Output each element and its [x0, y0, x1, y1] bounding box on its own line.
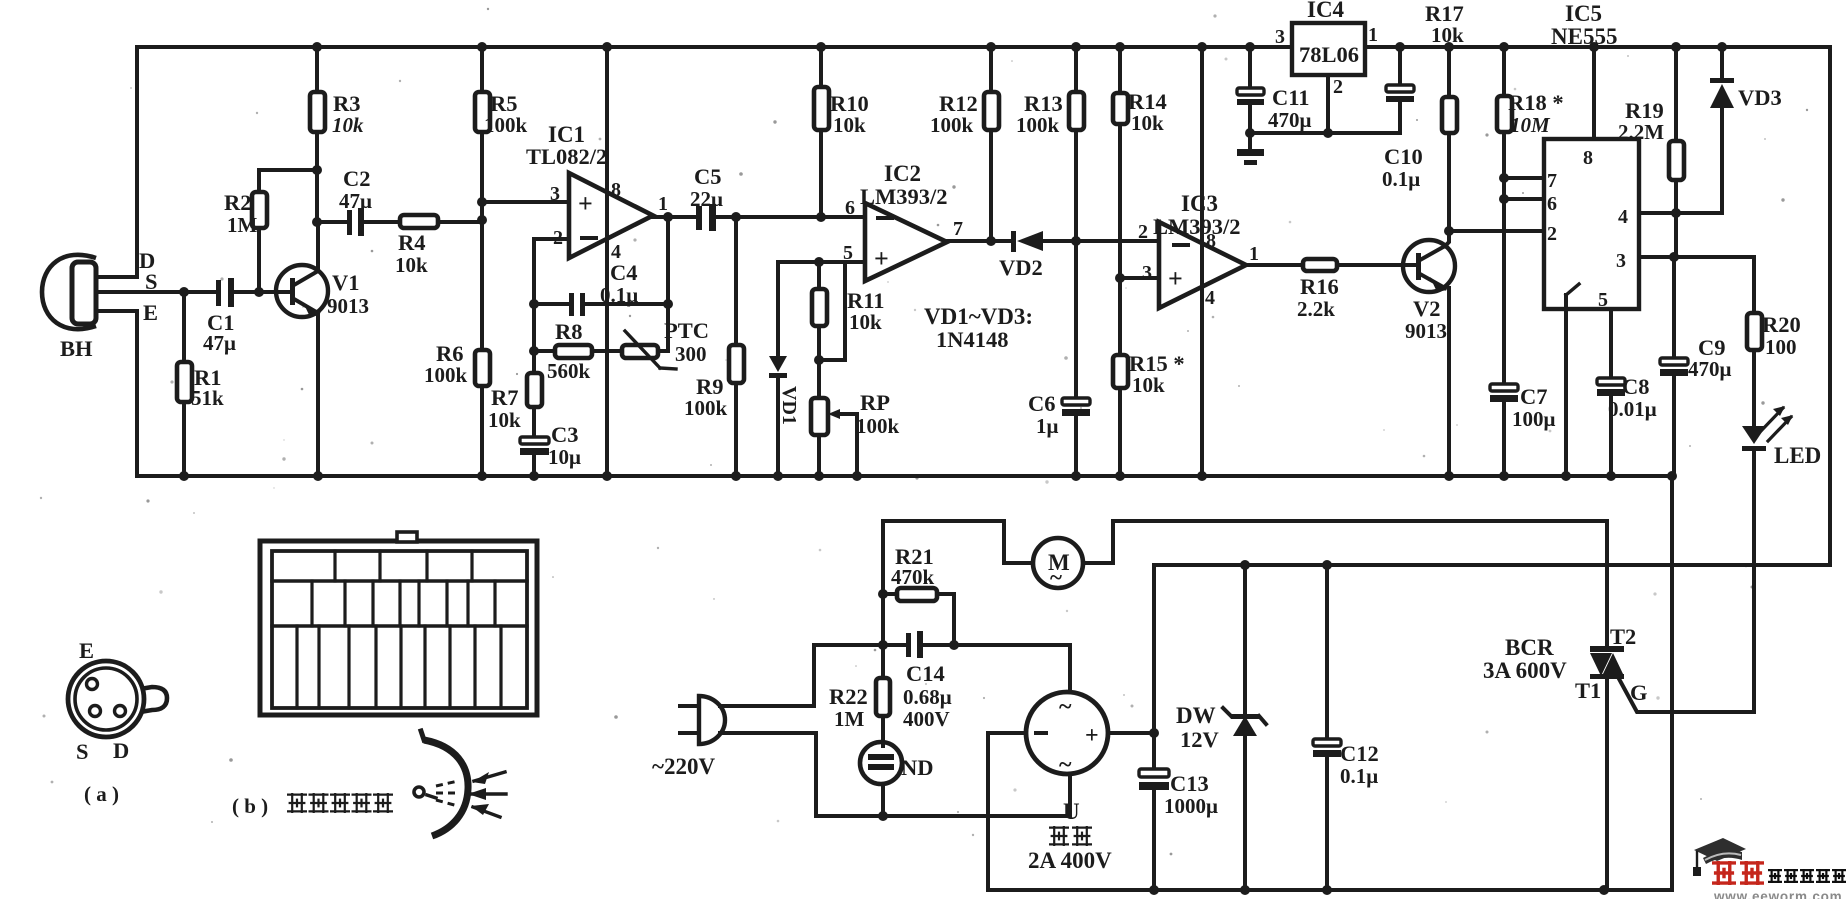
svg-text:R16: R16 — [1300, 274, 1339, 299]
wire V2 emitter diagonal — [1420, 274, 1445, 288]
resistor R8 — [555, 345, 592, 358]
svg-text:BH: BH — [60, 336, 93, 361]
diode VD3 triangle — [1710, 84, 1734, 108]
wire pin3 drop to R20 — [1752, 257, 1756, 313]
svg-text:400V: 400V — [903, 707, 950, 731]
node pin4/R19 — [1671, 208, 1681, 218]
svg-text:VD2: VD2 — [999, 255, 1043, 280]
transistor V1 circle — [276, 265, 328, 317]
svg-text:560k: 560k — [547, 359, 591, 383]
wire R2 top to collector node — [259, 170, 317, 192]
node C9/ground corner — [1667, 471, 1677, 481]
sensor bottom-view tab — [140, 687, 167, 712]
zener DW hook left — [1223, 708, 1231, 716]
wire IC1 power rail pins 8/4 — [605, 47, 609, 476]
wire R17 top — [1447, 47, 1451, 97]
plug prong top — [680, 704, 699, 708]
svg-text:100: 100 — [1765, 335, 1797, 359]
svg-text:0.1μ: 0.1μ — [600, 283, 638, 307]
svg-text:C2: C2 — [343, 166, 371, 191]
svg-text:1M: 1M — [834, 707, 865, 731]
svg-text:6: 6 — [1547, 193, 1557, 215]
sensor bottom-view inner circle — [75, 668, 137, 730]
svg-text:C10: C10 — [1384, 144, 1423, 169]
wire C2 to R4 — [364, 220, 400, 224]
fresnel lens tab — [397, 532, 417, 542]
capacitor C8 bottom plate — [1597, 389, 1625, 396]
svg-text:C6: C6 — [1028, 391, 1056, 416]
svg-text:VD3: VD3 — [1738, 85, 1782, 110]
triac T1 bar — [1590, 674, 1624, 679]
strike line of PTC — [625, 331, 660, 368]
label fresnel chinese char 2 — [309, 793, 329, 813]
svg-text:V1: V1 — [332, 270, 360, 295]
watermark cap band highlight — [1705, 853, 1741, 860]
wire R18 top — [1502, 47, 1506, 96]
triac triangle upper — [1590, 653, 1612, 676]
resistor R5 — [475, 92, 490, 132]
wire VD1 top — [776, 262, 780, 356]
svg-text:8: 8 — [1583, 147, 1593, 169]
svg-text:IC5: IC5 — [1565, 1, 1602, 26]
wire C12 top — [1325, 565, 1329, 739]
svg-text:C5: C5 — [694, 164, 722, 189]
node IC3 pin4 on ground bus — [1197, 471, 1207, 481]
LED cathode bar — [1742, 446, 1766, 451]
wire IC2 pin5 input — [819, 262, 865, 360]
svg-text:T1: T1 — [1575, 678, 1601, 703]
node pin7 tap — [1499, 173, 1509, 183]
wire C14 right to bridge top — [923, 645, 1070, 692]
fresnel bottom cell divider 9 — [499, 626, 502, 708]
fresnel bottom cell divider 5 — [399, 626, 402, 708]
node R1/ground — [179, 471, 189, 481]
wire C4 left lead — [534, 302, 570, 306]
node bridge+/C13 — [1149, 728, 1159, 738]
wire VD2 to IC3 pin2 — [1043, 239, 1159, 243]
lens sketch focus mark — [427, 795, 436, 798]
wire R6 bottom — [480, 386, 484, 476]
resistor R22 — [876, 678, 890, 716]
LED arrow 1 head — [1773, 406, 1785, 416]
fresnel middle cell divider 2 — [343, 581, 346, 626]
watermark site char 1 — [1768, 869, 1782, 883]
node R2/R3 junction — [312, 165, 322, 175]
wire NE555 pin5 stub — [1609, 309, 1613, 378]
svg-text:C4: C4 — [610, 260, 638, 285]
watermark site char 5 — [1832, 869, 1846, 883]
label fresnel chinese char 3 — [330, 793, 350, 813]
wire mains-motor line — [883, 521, 1033, 563]
fresnel middle cell divider 8 — [493, 581, 496, 626]
svg-text:R8: R8 — [555, 319, 583, 344]
wire R7 top — [532, 351, 536, 373]
wire R21 right drop — [937, 594, 954, 645]
svg-text:R22: R22 — [829, 684, 868, 709]
resistor R13 — [1069, 92, 1084, 130]
capacitor C3 bottom plate — [520, 448, 549, 455]
svg-text:2: 2 — [553, 227, 563, 249]
wire top supply bus (left of IC4) — [137, 45, 1292, 49]
svg-text:IC3: IC3 — [1181, 191, 1218, 216]
wire ND bottom — [881, 784, 885, 816]
wire VD1 bottom — [776, 378, 780, 476]
svg-text:~220V: ~220V — [652, 754, 715, 779]
wire C6 bottom — [1074, 416, 1078, 476]
svg-text:8: 8 — [611, 179, 621, 201]
wire V2 emitter down — [1447, 288, 1451, 476]
wire R12 bottom — [989, 130, 993, 241]
strike tail of PTC — [660, 368, 676, 369]
svg-text:TL082/2: TL082/2 — [526, 144, 607, 169]
regulator IC4 box — [1292, 23, 1365, 75]
svg-text:7: 7 — [953, 218, 963, 240]
wire V1 collector up — [316, 222, 320, 271]
node C14 left — [878, 640, 888, 650]
fresnel row divider 1 — [272, 579, 527, 582]
bridge rectifier U circle — [1026, 692, 1108, 774]
node R14 top on +V bus — [1115, 42, 1125, 52]
svg-text:10M: 10M — [1510, 113, 1551, 137]
watermark cap band — [1703, 850, 1742, 864]
wire RP bottom lead — [817, 435, 821, 476]
svg-text:VD1: VD1 — [778, 386, 800, 425]
fresnel bottom cell divider 6 — [423, 626, 426, 708]
wire R14 top — [1118, 47, 1122, 93]
svg-text:1: 1 — [658, 193, 668, 215]
label fresnel chinese char 1 — [287, 793, 307, 813]
svg-text:100k: 100k — [930, 113, 974, 137]
svg-text:R7: R7 — [491, 385, 519, 410]
fresnel bottom cell divider 3 — [347, 626, 350, 708]
svg-text:+: + — [874, 244, 889, 273]
fresnel top cell divider 1 — [333, 551, 336, 581]
node V2 emitter/ground — [1444, 471, 1454, 481]
node R21/C14 right — [949, 640, 959, 650]
node pin2/C11 line — [1323, 128, 1333, 138]
wire pin E of BH — [96, 309, 137, 313]
resistor R11 — [812, 289, 827, 326]
wire R5 bottom chain — [480, 132, 484, 350]
wire V2 collector up — [1445, 231, 1449, 246]
capacitor C6 bottom plate — [1062, 409, 1090, 416]
resistor R3 — [310, 92, 325, 132]
fresnel lens inner frame — [272, 551, 527, 708]
op-amp IC1 (TL082/2) — [569, 173, 653, 258]
svg-text:100k: 100k — [424, 363, 468, 387]
svg-text:10k: 10k — [1132, 373, 1165, 397]
wire motor to triac line — [1083, 521, 1607, 563]
svg-text:3A 600V: 3A 600V — [1483, 658, 1567, 683]
svg-text:NE555: NE555 — [1551, 24, 1617, 49]
fresnel bottom cell divider 1 — [295, 626, 298, 708]
wire NE555 pin4 line — [1639, 211, 1722, 215]
node R12/output — [986, 236, 996, 246]
svg-text:10k: 10k — [488, 408, 521, 432]
wire mains bottom — [720, 733, 1070, 816]
wire +12V rail — [1154, 565, 1830, 733]
fresnel middle cell divider 7 — [466, 581, 469, 626]
wire IC3 pin3 input — [1120, 276, 1159, 280]
svg-text:S: S — [76, 739, 89, 764]
svg-text:100k: 100k — [684, 396, 728, 420]
watermark cap tassel end — [1693, 867, 1701, 876]
svg-text:1μ: 1μ — [1036, 414, 1059, 438]
svg-text:www.eeworm.com: www.eeworm.com — [1713, 889, 1842, 899]
svg-text:3: 3 — [1275, 26, 1285, 48]
wire R1 top — [182, 292, 186, 362]
node pin3 tap of IC3 — [1115, 273, 1125, 283]
wire pin2 drop — [532, 239, 536, 304]
svg-text:12V: 12V — [1180, 727, 1219, 752]
minus sign IC1 — [580, 236, 598, 240]
motor M circle — [1033, 538, 1083, 588]
node DW top on +12V rail — [1240, 560, 1250, 570]
zener DW cathode bar — [1231, 714, 1259, 719]
wire R13 bottom — [1074, 130, 1078, 241]
lens ray 2 — [470, 792, 506, 795]
wire C14 left lead — [883, 643, 907, 647]
svg-text:3: 3 — [1616, 250, 1626, 272]
wire R4 to divider — [438, 220, 482, 224]
resistor R21 — [897, 588, 937, 601]
wire R10 bottom — [819, 130, 823, 217]
wire ground-bus drop to DC minus — [1670, 476, 1674, 890]
fresnel top cell divider 3 — [425, 551, 428, 581]
plug prong bottom — [680, 731, 699, 735]
diode VD1 triangle — [769, 356, 787, 372]
svg-text:10μ: 10μ — [548, 445, 581, 469]
wire VD1 to R11 line — [778, 260, 845, 264]
wire C4 right lead — [585, 302, 668, 306]
resistor R19 — [1669, 141, 1684, 180]
transistor V2 circle — [1403, 240, 1455, 292]
svg-text:0.1μ: 0.1μ — [1340, 764, 1378, 788]
wire R19 bottom — [1674, 180, 1678, 257]
wire DW top — [1243, 565, 1247, 712]
node ND/mains — [878, 811, 888, 821]
lens ray 2 arrowhead — [468, 788, 486, 800]
wire NE555 ground stub — [1564, 295, 1568, 476]
wire R10 top — [819, 47, 823, 87]
wire IC4 pin2 stub — [1326, 75, 1330, 133]
wire IC3 output — [1246, 263, 1303, 267]
wire left rail upper (D to +V) — [135, 47, 139, 277]
capacitor C9 top plate — [1660, 358, 1688, 365]
wire R20 to LED — [1752, 350, 1756, 426]
potentiometer RP body — [811, 398, 828, 435]
watermark site char 4 — [1816, 869, 1830, 883]
wire IC1 output — [653, 215, 697, 219]
wire VD3 bottom — [1720, 108, 1724, 213]
svg-text:9013: 9013 — [1405, 319, 1447, 343]
wire triac T1 lead — [1605, 679, 1609, 890]
watermark chong char 2 — [1740, 861, 1764, 885]
svg-text:1000μ: 1000μ — [1164, 794, 1218, 818]
svg-text:( b ): ( b ) — [232, 794, 268, 818]
node pin8 on +V bus — [1589, 42, 1599, 52]
svg-text:7: 7 — [1547, 170, 1557, 192]
wire to NE555 pin2 — [1449, 229, 1544, 233]
capacitor C9 bottom plate — [1660, 369, 1688, 376]
resistor R14 — [1113, 93, 1128, 124]
watermark cap tassel — [1696, 852, 1698, 867]
node R12 top on +V bus — [986, 42, 996, 52]
fresnel middle cell divider 3 — [371, 581, 374, 626]
wire C1 to V1 base — [234, 290, 292, 294]
svg-text:( a ): ( a ) — [84, 782, 119, 806]
capacitor C11 bottom plate — [1237, 99, 1264, 105]
node C12 top on +12V rail — [1322, 560, 1332, 570]
svg-text:PTC: PTC — [664, 318, 709, 343]
fresnel bottom cell divider 7 — [448, 626, 451, 708]
capacitor C4 left plate — [569, 293, 574, 316]
wire NE555 pin7 — [1504, 176, 1544, 180]
minus sign IC3 — [1172, 243, 1190, 247]
svg-text:47μ: 47μ — [339, 189, 372, 213]
wire C11 to C10 link — [1250, 131, 1400, 135]
capacitor C14 right plate — [917, 631, 923, 658]
capacitor C7 top plate — [1490, 384, 1518, 391]
ground bar wide — [1237, 149, 1264, 156]
node IC1 pin8 on +V bus — [602, 42, 612, 52]
watermark site char 3 — [1800, 869, 1814, 883]
svg-text:R18 *: R18 * — [1508, 90, 1564, 115]
node R8 left — [529, 346, 539, 356]
wire R7 to C3 — [532, 407, 536, 437]
svg-text:4: 4 — [1205, 287, 1215, 309]
capacitor C13 top plate — [1139, 769, 1169, 777]
svg-text:C13: C13 — [1170, 771, 1209, 796]
node C8/ground — [1606, 471, 1616, 481]
minus sign IC2 — [876, 216, 894, 220]
lens ray 1 arrowhead — [472, 772, 489, 784]
lens sketch focus ring — [414, 787, 424, 797]
capacitor C12 top plate — [1313, 739, 1341, 746]
wire RP wiper — [838, 414, 857, 476]
wire V2 collector diagonal — [1420, 246, 1445, 260]
capacitor C13 bottom plate — [1139, 782, 1169, 790]
wire left rail lower (E to ground) — [135, 311, 139, 476]
node C10 top on +V bus — [1395, 42, 1405, 52]
svg-text:3: 3 — [550, 183, 560, 205]
sensor pin S circle — [90, 706, 101, 717]
svg-text:C11: C11 — [1272, 85, 1310, 110]
resistor R17 — [1442, 97, 1457, 133]
node V1 emitter/ground — [313, 471, 323, 481]
svg-text:8: 8 — [1206, 230, 1216, 252]
capacitor C12 bottom plate — [1313, 750, 1341, 757]
svg-text:R4: R4 — [398, 230, 426, 255]
wire R8 left drop — [532, 304, 536, 351]
wire ground stub — [1248, 133, 1252, 149]
capacitor C11 top plate — [1237, 88, 1264, 95]
svg-text:LM393/2: LM393/2 — [1153, 214, 1241, 239]
node R13 top on +V bus — [1071, 42, 1081, 52]
node R11 bottom tap — [814, 355, 824, 365]
node C6/ground — [1071, 471, 1081, 481]
wire ground bus — [137, 474, 1672, 478]
svg-text:2.2M: 2.2M — [1618, 120, 1664, 144]
svg-text:E: E — [79, 638, 94, 663]
svg-text:0.68μ: 0.68μ — [903, 685, 952, 709]
wire C13 bottom — [1152, 790, 1156, 890]
neon lamp ND circle — [860, 742, 902, 784]
svg-text:100k: 100k — [1016, 113, 1060, 137]
capacitor C3 top plate — [520, 437, 549, 444]
lens sketch dashed ray c — [436, 800, 458, 806]
wire R21 left lead — [883, 592, 897, 596]
wire R13 top — [1074, 47, 1078, 92]
diode VD2 cathode bar — [1011, 231, 1016, 252]
node IC1 output junction — [663, 212, 673, 222]
wire C9 bottom — [1672, 376, 1676, 476]
wire R12 top — [989, 47, 993, 92]
wire IC1 pin2 input — [534, 237, 569, 241]
label qiao char — [1072, 826, 1092, 846]
node C11/ground-symbol — [1245, 128, 1255, 138]
wire pin D of BH — [96, 275, 137, 279]
capacitor C10 top plate — [1386, 85, 1414, 92]
wire top supply bus (right of IC4) — [1365, 45, 1830, 49]
node R10 top on +V bus — [816, 42, 826, 52]
svg-text:1: 1 — [1368, 24, 1378, 46]
node R9/ground — [731, 471, 741, 481]
transistor V1 base bar — [290, 278, 295, 305]
wire C11 bottom — [1248, 105, 1252, 133]
wire R3 top — [315, 47, 319, 92]
resistor R7 — [527, 373, 542, 407]
node R10/pin6 — [816, 212, 826, 222]
svg-text:100k: 100k — [856, 414, 900, 438]
node VD1/ground — [773, 471, 783, 481]
LED arrow 2 — [1768, 417, 1791, 441]
wire RP top lead — [817, 360, 821, 398]
wire C7 bottom — [1502, 402, 1506, 476]
svg-text:10k: 10k — [849, 310, 882, 334]
watermark chong char 1 — [1712, 861, 1736, 885]
resistor R12 — [984, 92, 999, 130]
svg-text:RP: RP — [860, 390, 890, 415]
fresnel bottom cell divider 8 — [473, 626, 476, 708]
wire LED to gate — [1752, 450, 1756, 712]
node R11 top — [814, 257, 824, 267]
op-amp IC3 (LM393/2) — [1159, 222, 1246, 308]
plug ~220V symbol — [699, 696, 725, 744]
capacitor C2 left plate — [347, 210, 352, 235]
wire mains top to snubber — [720, 645, 883, 706]
svg-text:300: 300 — [675, 342, 707, 366]
transistor V2 base bar — [1416, 253, 1421, 280]
resistor R1 — [177, 362, 192, 402]
LED triangle — [1742, 426, 1766, 444]
node R3 top on +V bus — [312, 42, 322, 52]
svg-text:G: G — [1630, 680, 1648, 705]
resistor R16 — [1303, 259, 1337, 271]
lens ray 3 — [473, 807, 500, 817]
LED arrow 2 head — [1781, 415, 1793, 425]
diode VD1 cathode bar — [769, 373, 787, 378]
svg-text:V2: V2 — [1413, 296, 1441, 321]
svg-text:C14: C14 — [906, 661, 945, 686]
svg-text:+: + — [1168, 264, 1183, 293]
capacitor C5 right plate — [709, 204, 716, 231]
node NE555 gnd on bus — [1561, 471, 1571, 481]
thermistor PTC body — [622, 345, 658, 358]
svg-text:0.01μ: 0.01μ — [1608, 397, 1657, 421]
svg-text:2: 2 — [1547, 223, 1557, 245]
wire C12 bottom — [1325, 757, 1329, 890]
